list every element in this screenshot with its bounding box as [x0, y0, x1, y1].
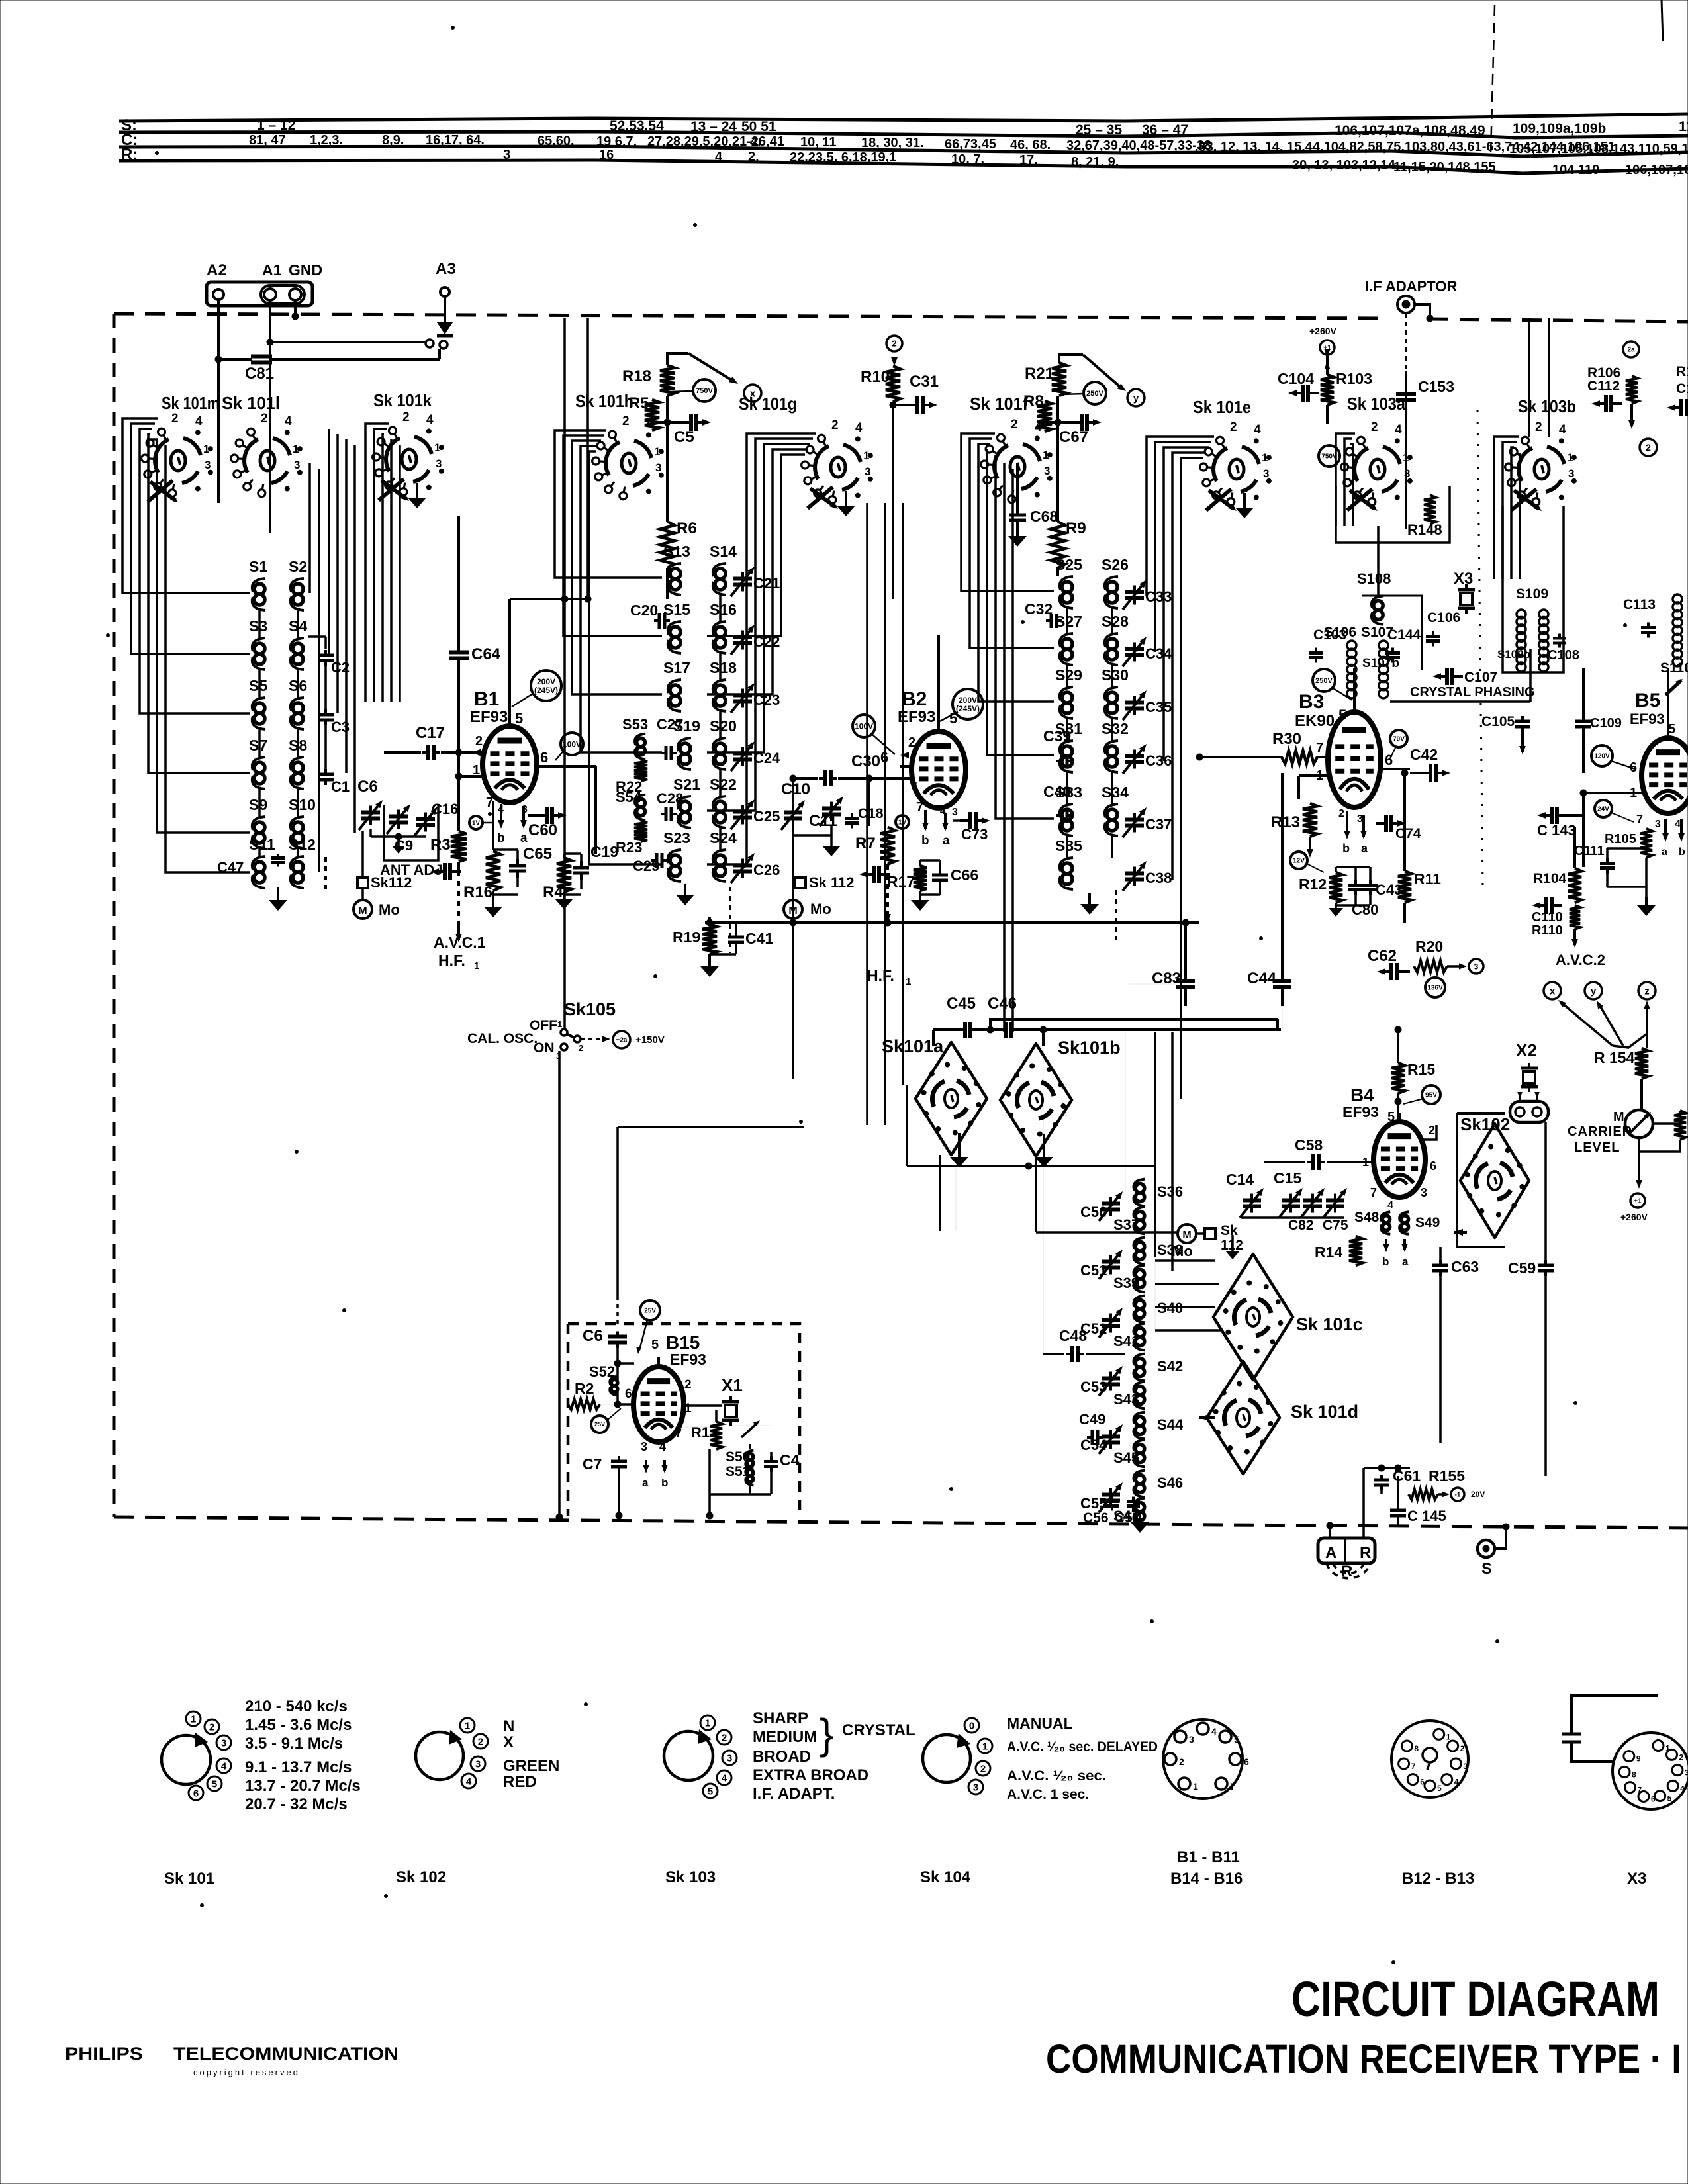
- wire meter: [1640, 1079, 1643, 1110]
- svg-text:8, 21, 9.: 8, 21, 9.: [1071, 155, 1119, 169]
- wire C17 to grid: [384, 751, 421, 754]
- capacitor C4: [770, 1457, 773, 1462]
- svg-text:S23: S23: [663, 829, 690, 846]
- coil S21: [680, 801, 690, 812]
- svg-text:PHILIPS: PHILIPS: [65, 2044, 143, 2064]
- svg-text:COMMUNICATION RECEIVER TYPE: COMMUNICATION RECEIVER TYPE · I: [1046, 2036, 1681, 2081]
- coil S8: [293, 762, 303, 773]
- svg-text:a: a: [520, 831, 528, 845]
- svg-text:2: 2: [1011, 418, 1018, 432]
- svg-text:1: 1: [1567, 451, 1573, 464]
- coil S1: [254, 584, 265, 594]
- resistor R17: [914, 866, 927, 891]
- coil S18: [715, 685, 726, 696]
- svg-text:Sk 101e: Sk 101e: [1193, 397, 1251, 417]
- svg-text:C103: C103: [1313, 627, 1346, 643]
- terminal y2: [1585, 982, 1602, 999]
- svg-text:C68: C68: [1030, 508, 1058, 525]
- svg-text:S34: S34: [1102, 784, 1129, 801]
- trimmer arrow S50: [741, 1423, 757, 1437]
- svg-text:S28: S28: [1102, 613, 1129, 630]
- svg-text:Sk112: Sk112: [371, 874, 412, 891]
- svg-text:S45: S45: [1113, 1449, 1139, 1466]
- svg-text:C6: C6: [583, 1327, 603, 1345]
- svg-text:R6: R6: [677, 520, 697, 537]
- trimmer C35: [1133, 696, 1136, 703]
- wire R10 down: [892, 402, 894, 405]
- svg-text:1: 1: [1043, 449, 1049, 461]
- arrow meter down: [1638, 1170, 1640, 1186]
- svg-text:2: 2: [1535, 420, 1542, 434]
- svg-text:Sk 103: Sk 103: [665, 1868, 716, 1886]
- svg-text:27,28,29,5,20,21-26,41: 27,28,29,5,20,21-26,41: [647, 134, 784, 149]
- svg-text:R110: R110: [1532, 923, 1563, 938]
- wire bundle Sk101g: [707, 433, 816, 864]
- wire b4 col: [1439, 1247, 1442, 1263]
- svg-text:C63: C63: [1451, 1258, 1479, 1275]
- terminal +2a 150V: [613, 1031, 630, 1048]
- arrow below R106: [1630, 404, 1633, 426]
- svg-text:CIRCUIT DIAGRAM: CIRCUIT DIAGRAM: [1291, 1972, 1660, 2026]
- svg-text:4: 4: [426, 413, 434, 427]
- svg-text:A.V.C. ¹⁄₂₀ sec.: A.V.C. ¹⁄₂₀ sec.: [1007, 1768, 1106, 1784]
- wire Sk101b drop: [1035, 1156, 1037, 1232]
- voltage bubble 136V: [1425, 978, 1445, 997]
- svg-text:a: a: [1402, 1255, 1409, 1268]
- legend socket B12-B13 circle: [1391, 1721, 1468, 1797]
- svg-text:C49: C49: [1079, 1411, 1105, 1428]
- crease mid right: [1477, 410, 1483, 887]
- coil S37: [1135, 1211, 1145, 1220]
- coil S109b: [1539, 610, 1548, 619]
- svg-text:2: 2: [1179, 1756, 1184, 1767]
- svg-text:2: 2: [980, 1763, 986, 1774]
- resistor R13: [1303, 803, 1317, 837]
- svg-text:Mo: Mo: [810, 901, 831, 917]
- svg-text:C60: C60: [528, 821, 557, 839]
- svg-text:2: 2: [475, 734, 483, 749]
- svg-text:136V: 136V: [1427, 985, 1443, 992]
- svg-text:C1: C1: [1676, 381, 1688, 396]
- svg-text:C15: C15: [1274, 1169, 1301, 1187]
- switch Sk101b: [1000, 1044, 1072, 1156]
- svg-text:4: 4: [221, 1760, 227, 1772]
- svg-text:5: 5: [1387, 1110, 1395, 1124]
- svg-text:-1: -1: [1455, 1492, 1461, 1499]
- trimmer C16: [424, 813, 427, 819]
- svg-text:4: 4: [722, 1772, 727, 1784]
- legend Sk104 position 1: [978, 1739, 992, 1753]
- ground mid: [1237, 1234, 1239, 1244]
- wire R16 C65 loop: [493, 848, 518, 851]
- svg-text:S30: S30: [1102, 666, 1129, 684]
- svg-text:Sk 101h: Sk 101h: [575, 391, 633, 411]
- coil S45: [1135, 1444, 1145, 1453]
- svg-text:4: 4: [1395, 423, 1402, 437]
- svg-text:I.F ADAPTOR: I.F ADAPTOR: [1365, 278, 1457, 295]
- tube B15 EF93: [633, 1367, 684, 1442]
- svg-text:R14: R14: [1315, 1244, 1342, 1261]
- svg-text:2: 2: [1230, 420, 1237, 434]
- svg-text:S36: S36: [1157, 1183, 1183, 1200]
- coil S49: [1401, 1216, 1408, 1223]
- terminal x2: [1544, 982, 1561, 999]
- svg-text:C110: C110: [1532, 910, 1563, 925]
- svg-text:1: 1: [863, 449, 869, 462]
- svg-text:4: 4: [498, 804, 504, 815]
- svg-text:x: x: [1550, 985, 1556, 997]
- coil S41: [1135, 1328, 1145, 1337]
- svg-text:CRYSTAL: CRYSTAL: [842, 1721, 915, 1739]
- svg-text:B15: B15: [666, 1332, 700, 1353]
- trimmer C53: [1109, 1372, 1112, 1379]
- svg-text:S26: S26: [1102, 556, 1129, 573]
- svg-text:3: 3: [1189, 1734, 1194, 1745]
- svg-text:4: 4: [659, 1440, 666, 1453]
- svg-text:ON: ON: [534, 1040, 555, 1056]
- svg-text:11: 11: [1679, 119, 1688, 134]
- wire B5 pin1 left: [1583, 792, 1643, 794]
- svg-text:3: 3: [727, 1752, 732, 1764]
- wire A1 down: [269, 300, 271, 533]
- svg-text:S109: S109: [1516, 586, 1548, 602]
- switch Sk102: [1460, 1124, 1529, 1238]
- svg-text:3: 3: [641, 1440, 647, 1453]
- svg-text:750V: 750V: [1321, 453, 1337, 461]
- svg-text:S107b: S107b: [1362, 657, 1399, 670]
- capacitor C108: [1558, 634, 1561, 639]
- svg-text:C64: C64: [471, 645, 501, 663]
- svg-text:12V: 12V: [1293, 858, 1305, 865]
- tube B1 EF93: [483, 726, 537, 803]
- trimmer C75: [1334, 1194, 1336, 1201]
- svg-text:C58: C58: [1295, 1136, 1323, 1154]
- terminal +2 top: [886, 336, 902, 351]
- legend Sk102 position 2: [473, 1734, 488, 1749]
- svg-text:R12: R12: [1299, 876, 1327, 893]
- svg-text:S44: S44: [1157, 1416, 1184, 1433]
- svg-text:+1: +1: [1634, 1198, 1642, 1205]
- svg-text:S14: S14: [710, 543, 737, 560]
- legend socket B12-B13 pins: [1434, 1729, 1444, 1739]
- svg-text:S3: S3: [249, 617, 267, 635]
- svg-text:1: 1: [434, 441, 440, 454]
- svg-text:52,53,54: 52,53,54: [610, 118, 664, 134]
- svg-text:2: 2: [831, 418, 839, 432]
- svg-text:95V: 95V: [1425, 1092, 1437, 1099]
- svg-text:7: 7: [1316, 741, 1323, 755]
- chassis dashed border bottom: [114, 1517, 1688, 1528]
- wire bundle Sk101k: [365, 424, 389, 702]
- coil S24: [715, 855, 726, 866]
- svg-text:2a: 2a: [1627, 347, 1635, 354]
- wire: [1111, 719, 1113, 741]
- svg-text:18, 30, 31.: 18, 30, 31.: [861, 136, 924, 150]
- trimmer C38: [1133, 867, 1136, 874]
- wire B3 pin6: [1381, 768, 1410, 770]
- wire C64 vertical: [457, 516, 460, 649]
- table rule lines: [119, 114, 1688, 121]
- svg-text:S35: S35: [1055, 837, 1082, 854]
- legend socket X3 pins: [1653, 1741, 1664, 1751]
- wire X2: [1519, 1092, 1521, 1101]
- coil S26: [1107, 582, 1117, 592]
- svg-text:S43: S43: [1113, 1391, 1139, 1408]
- wire B1 pin6: [537, 765, 596, 768]
- trimmer C50: [1109, 1197, 1112, 1204]
- voltage bubble 250V B3: [1313, 669, 1335, 692]
- svg-text:EF93: EF93: [1342, 1103, 1379, 1120]
- svg-text:C14: C14: [1226, 1171, 1254, 1188]
- svg-text:7: 7: [1636, 813, 1643, 826]
- coil S13: [670, 569, 680, 579]
- svg-text:RED: RED: [503, 1773, 537, 1791]
- svg-text:Sk 101g: Sk 101g: [739, 394, 797, 414]
- svg-text:16,17, 64.: 16,17, 64.: [426, 133, 485, 148]
- svg-text:MANUAL: MANUAL: [1007, 1715, 1073, 1732]
- svg-text:S9: S9: [249, 796, 267, 813]
- wire R21 top arrow: [1059, 355, 1083, 363]
- voltage bubble 25V left: [591, 1416, 608, 1433]
- svg-text:R19: R19: [673, 929, 700, 946]
- switch Sk101c: [1213, 1254, 1293, 1380]
- coil S31: [1062, 746, 1072, 756]
- svg-text:x: x: [750, 388, 756, 399]
- wire: [324, 666, 327, 711]
- svg-text:C36: C36: [1145, 752, 1172, 769]
- coil S2: [293, 584, 303, 594]
- svg-text:4: 4: [940, 805, 946, 817]
- legend socket B1-B11 pin 6: [1229, 1753, 1241, 1765]
- svg-text:S15: S15: [663, 601, 690, 618]
- coil S19: [680, 743, 690, 754]
- svg-text:A1: A1: [262, 261, 282, 279]
- svg-text:81, 47: 81, 47: [249, 133, 286, 148]
- svg-text:4: 4: [1559, 423, 1566, 437]
- svg-text:X1: X1: [722, 1375, 743, 1395]
- svg-text:4: 4: [1454, 1778, 1459, 1787]
- svg-text:S6: S6: [289, 677, 307, 694]
- diode at A3: [444, 296, 446, 322]
- svg-text:3.5 - 9.1 Mc/s: 3.5 - 9.1 Mc/s: [245, 1735, 343, 1752]
- svg-text:R15: R15: [1407, 1061, 1435, 1078]
- svg-text:2: 2: [1429, 1124, 1435, 1137]
- svg-text:1: 1: [906, 976, 911, 987]
- box Sk103a: [1336, 486, 1450, 543]
- wire B4 pin2: [1421, 1125, 1436, 1140]
- svg-text:(245V): (245V): [534, 686, 558, 695]
- coil S16: [715, 627, 726, 637]
- socket Sk112 mid: [1196, 1232, 1205, 1235]
- svg-text:Sk 101: Sk 101: [164, 1870, 214, 1888]
- voltage bubble IV B1: [469, 816, 483, 829]
- svg-text:LEVEL: LEVEL: [1574, 1140, 1620, 1155]
- wire: [258, 670, 261, 698]
- svg-text:X: X: [503, 1733, 514, 1751]
- wire bus y1540: [990, 1019, 1278, 1030]
- svg-text:C28: C28: [657, 790, 683, 807]
- svg-text:24V: 24V: [1597, 806, 1609, 813]
- legend Sk102 switch circle: [416, 1732, 463, 1780]
- wire: [1139, 1206, 1141, 1207]
- svg-text:R155: R155: [1429, 1467, 1465, 1484]
- tube B3 EK90: [1328, 712, 1381, 807]
- meter M carrier level: [1625, 1110, 1653, 1138]
- svg-text:R11: R11: [1414, 870, 1441, 887]
- svg-text:C5: C5: [674, 428, 694, 446]
- wire C10 shield: [792, 835, 794, 878]
- svg-text:GND: GND: [289, 261, 322, 279]
- legend Sk101 position 2: [205, 1719, 219, 1734]
- svg-text:2: 2: [722, 1732, 727, 1743]
- svg-text:C26: C26: [753, 862, 780, 878]
- arrow AVC2: [1573, 929, 1576, 945]
- svg-text:Sk 102: Sk 102: [396, 1868, 446, 1886]
- svg-text:A.V.C. ¹⁄₂₀ sec. DELAYED: A.V.C. ¹⁄₂₀ sec. DELAYED: [1007, 1739, 1158, 1754]
- resistor R11: [1398, 871, 1411, 903]
- svg-text:36 – 47: 36 – 47: [1142, 122, 1188, 138]
- wire C83 C44 row: [1129, 983, 1176, 985]
- svg-text:CAL. OSC.: CAL. OSC.: [467, 1031, 538, 1046]
- svg-text:6: 6: [1430, 1160, 1436, 1173]
- ground below R19: [708, 954, 711, 966]
- capacitor C65: [516, 859, 519, 866]
- legend Sk103 position 3: [722, 1751, 737, 1765]
- svg-text:C42: C42: [1410, 746, 1438, 763]
- capacitor C43: [1354, 880, 1357, 886]
- legend Sk103 position 2: [717, 1730, 731, 1745]
- wire: [1139, 1439, 1141, 1440]
- svg-text:17.: 17.: [1019, 153, 1038, 167]
- coil S14: [715, 569, 726, 579]
- svg-text:S: S: [1481, 1560, 1492, 1578]
- svg-text:4: 4: [1387, 1200, 1393, 1211]
- svg-text:C75: C75: [1323, 1218, 1348, 1233]
- coil S32: [1107, 746, 1117, 756]
- svg-text:4: 4: [1680, 1784, 1685, 1793]
- svg-text:66,73,45: 66,73,45: [945, 137, 996, 152]
- capacitor C19: [580, 861, 583, 868]
- svg-text:S53: S53: [622, 716, 648, 733]
- trimmer C55: [1109, 1488, 1112, 1495]
- svg-text:b: b: [1679, 846, 1685, 858]
- microphone Mo B1: [353, 900, 372, 919]
- svg-text:R1: R1: [1676, 364, 1688, 379]
- terminal -3: [1469, 959, 1483, 974]
- svg-text:Sk 101c: Sk 101c: [1296, 1314, 1363, 1334]
- trimmer C52: [1109, 1314, 1112, 1320]
- svg-text:Sk 101k: Sk 101k: [373, 390, 432, 410]
- svg-text:3: 3: [973, 1782, 978, 1793]
- arrow left Sk101d: [1199, 1414, 1209, 1422]
- svg-text:1: 1: [474, 960, 479, 972]
- legend Sk101 position 3: [216, 1735, 231, 1750]
- svg-text:2: 2: [1460, 1744, 1465, 1753]
- svg-text:3: 3: [1474, 962, 1479, 971]
- svg-text:C40: C40: [1043, 783, 1071, 800]
- wire B2 pin6 left: [900, 765, 911, 768]
- svg-text:7: 7: [1637, 1786, 1642, 1795]
- svg-text:+260V: +260V: [1309, 326, 1337, 336]
- ground Sk101a: [958, 1133, 961, 1157]
- svg-text:3: 3: [1263, 467, 1269, 480]
- svg-text:106,107,107a,108,48,49: 106,107,107a,108,48,49: [1335, 123, 1485, 138]
- svg-text:2: 2: [892, 339, 896, 349]
- svg-text:120V: 120V: [1594, 753, 1610, 760]
- dashed wire below R3: [457, 871, 460, 924]
- trimmer C82: [1311, 1194, 1314, 1201]
- voltage bubble 250V g: [1084, 382, 1106, 404]
- wire Sk112 Mo: [361, 888, 364, 900]
- wire vert 1937: [1281, 773, 1284, 966]
- svg-text:C30: C30: [851, 752, 880, 770]
- dashed arcs below connector: [1327, 1563, 1370, 1578]
- svg-text:200V: 200V: [959, 696, 977, 705]
- capacitor C59: [1544, 1260, 1547, 1265]
- legend Sk103 position 1: [700, 1715, 715, 1730]
- svg-text:a: a: [1361, 842, 1368, 855]
- legend socket B1-B11 pin 7: [1215, 1778, 1227, 1790]
- resistor R14: [1349, 1236, 1362, 1265]
- wire S36 col to Sk101c: [1155, 1259, 1215, 1262]
- svg-text:+2a: +2a: [616, 1037, 628, 1044]
- voltage bubble 95V: [1422, 1085, 1440, 1104]
- svg-text:S49: S49: [1415, 1215, 1440, 1230]
- resistor R154: [1635, 1048, 1648, 1079]
- svg-text:R30: R30: [1272, 730, 1301, 748]
- coil S44: [1135, 1416, 1145, 1426]
- svg-text:+260V: +260V: [1620, 1212, 1648, 1222]
- svg-text:Sk: Sk: [1221, 1223, 1238, 1238]
- coil S40: [1135, 1300, 1145, 1309]
- arrow to z: [1646, 1005, 1648, 1034]
- rotary switch Sk103b: [1534, 459, 1549, 479]
- svg-text:y: y: [1133, 392, 1139, 404]
- wire A2 down: [217, 300, 220, 503]
- svg-text:C73: C73: [961, 826, 988, 842]
- svg-text:R: R: [1360, 1544, 1371, 1562]
- wire IF adaptor hook: [1415, 304, 1430, 318]
- wire vertical x853: [563, 318, 566, 1030]
- capacitor C68: [1016, 508, 1019, 515]
- svg-text:R23: R23: [616, 839, 642, 856]
- coil S39: [1135, 1269, 1145, 1279]
- svg-text:C 145: C 145: [1407, 1508, 1446, 1524]
- terminal 2a right: [1623, 341, 1639, 357]
- svg-text:C33: C33: [1145, 588, 1172, 605]
- svg-text:3: 3: [1044, 465, 1050, 477]
- wire C10 C11: [792, 829, 794, 835]
- wire R103 down: [1326, 405, 1329, 424]
- svg-text:65,60.: 65,60.: [538, 134, 575, 148]
- coil S10: [293, 822, 303, 833]
- svg-text:R:: R:: [121, 146, 138, 163]
- paper specks: [156, 152, 159, 155]
- svg-text:C113: C113: [1623, 597, 1656, 612]
- wire C81 row: [218, 358, 252, 361]
- ground below C11: [830, 835, 833, 846]
- svg-text:C153: C153: [1418, 378, 1454, 395]
- svg-text:6: 6: [1630, 760, 1637, 775]
- svg-text:C47: C47: [217, 859, 244, 876]
- svg-text:R20: R20: [1415, 938, 1443, 955]
- capacitor C56: [1111, 1497, 1113, 1502]
- svg-text:R10: R10: [861, 368, 890, 386]
- legend Sk104 switch circle: [923, 1735, 970, 1782]
- capacitor C109: [1582, 716, 1585, 721]
- coil S12: [293, 862, 303, 872]
- svg-text:R148: R148: [1407, 522, 1442, 538]
